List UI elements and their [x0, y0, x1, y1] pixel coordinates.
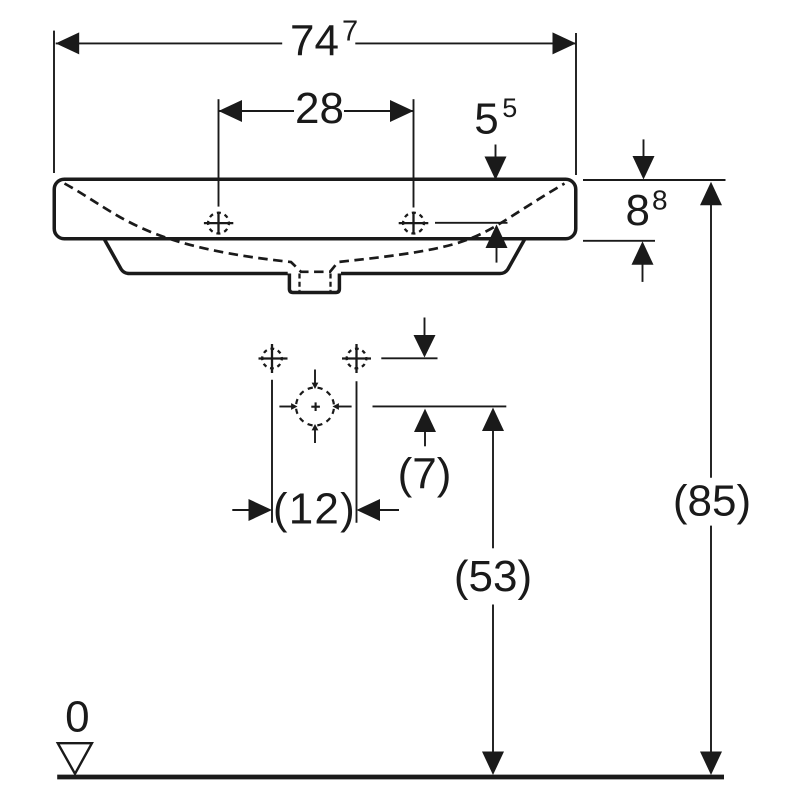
svg-text:(12): (12) [273, 485, 356, 534]
svg-text:(7): (7) [398, 450, 452, 499]
svg-text:8: 8 [652, 185, 668, 216]
svg-text:28: 28 [295, 84, 344, 133]
svg-text:0: 0 [65, 693, 89, 742]
svg-text:5: 5 [502, 93, 517, 123]
svg-text:7: 7 [342, 16, 358, 48]
svg-text:5: 5 [474, 94, 498, 143]
svg-text:(85): (85) [673, 476, 751, 525]
svg-text:74: 74 [290, 17, 339, 66]
svg-text:(53): (53) [454, 552, 532, 601]
svg-text:8: 8 [626, 186, 650, 235]
